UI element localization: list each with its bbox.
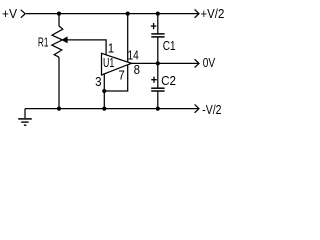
node +V/2 output arrow (195, 9, 199, 17)
wire C1 bottom lead (157, 37, 159, 64)
wire R1 wiper to op-amp pin 1 (67, 40, 107, 55)
svg-text:+V/2: +V/2 (201, 7, 225, 21)
resistor R1 zigzag (52, 26, 63, 57)
svg-text:U1: U1 (103, 56, 114, 70)
wire C2 bottom lead (157, 91, 159, 109)
wire 0V rail from op-amp output pin 8 (131, 62, 199, 64)
svg-text:-V/2: -V/2 (202, 103, 221, 117)
junction bottom rail / pin 3 (102, 107, 106, 111)
wire bottom rail -V (25, 108, 199, 110)
node 0V output arrow (195, 59, 199, 67)
wire pin 7 down then left (104, 65, 127, 91)
resistor R1 wiper arrow (62, 37, 67, 43)
svg-text:8: 8 (134, 63, 140, 77)
op-amp U1 triangle (102, 53, 132, 75)
svg-text:7: 7 (118, 68, 124, 82)
capacitor C1 plus sign (151, 23, 157, 29)
capacitor C2 plates (151, 88, 164, 91)
junction bottom rail / C2 (156, 107, 160, 111)
junction 0V rail / C1 C2 (156, 61, 160, 65)
capacitor C2 plus sign (151, 77, 157, 83)
ground (18, 119, 32, 125)
svg-text:14: 14 (128, 49, 139, 63)
junction top rail / R1 (57, 12, 61, 16)
svg-text:C1: C1 (163, 39, 176, 53)
wire pin 3 down to -V rail (103, 74, 105, 109)
wire R1 top lead (58, 14, 60, 26)
capacitor C1 plates (151, 34, 164, 37)
node -V/2 output arrow (195, 104, 199, 112)
svg-text:R1: R1 (38, 36, 49, 50)
ground stub wire (24, 109, 26, 119)
junction top rail / pin 14 (126, 12, 130, 16)
wire C2 top lead (157, 63, 159, 88)
wire pin 14 from +V rail (127, 14, 129, 63)
junction pins 3 and 7 (102, 89, 106, 93)
wire C1 top lead (157, 14, 159, 34)
node +V input chevron (21, 10, 25, 18)
junction bottom rail / R1 (57, 107, 61, 111)
svg-text:1: 1 (108, 42, 114, 56)
svg-text:C2: C2 (161, 74, 176, 88)
wire top rail +V (26, 13, 199, 15)
junction top rail / C1 (156, 12, 160, 16)
wire R1 bottom lead (58, 57, 60, 108)
svg-text:0V: 0V (203, 56, 216, 70)
svg-text:3: 3 (95, 75, 101, 89)
svg-text:+V: +V (2, 7, 18, 21)
